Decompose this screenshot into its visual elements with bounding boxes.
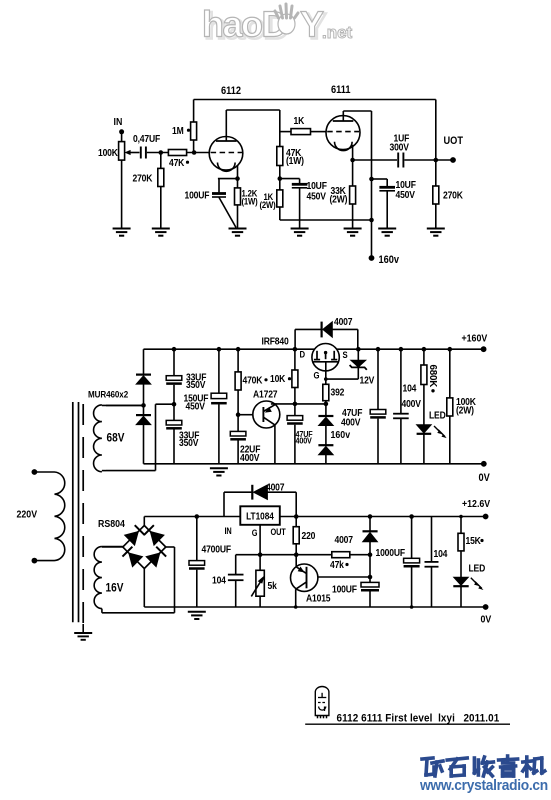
svg-text:16V: 16V <box>106 582 124 595</box>
svg-text:(1W): (1W) <box>286 154 304 166</box>
svg-text:4700UF: 4700UF <box>202 543 232 555</box>
svg-text:350V: 350V <box>186 378 206 390</box>
svg-text:www.crystalradio.cn: www.crystalradio.cn <box>419 777 548 793</box>
svg-text:220V: 220V <box>17 509 38 521</box>
svg-text:(2W): (2W) <box>260 199 276 210</box>
svg-text:100K: 100K <box>98 146 118 158</box>
svg-text:470K: 470K <box>243 374 263 386</box>
svg-text:400V: 400V <box>296 436 313 446</box>
svg-text:104: 104 <box>403 382 418 394</box>
svg-text:IN: IN <box>114 116 123 128</box>
svg-text:(2W): (2W) <box>456 404 474 416</box>
svg-text:160v: 160v <box>331 429 351 441</box>
svg-text:6112: 6112 <box>221 85 241 97</box>
svg-text:270K: 270K <box>443 189 463 201</box>
svg-text:(1W): (1W) <box>242 196 258 207</box>
svg-text:6112 6111 First level lxyi: 6112 6111 First level lxyi 2011.01 <box>337 713 500 725</box>
svg-text:450V: 450V <box>186 400 206 412</box>
svg-text:100UF: 100UF <box>185 189 210 201</box>
svg-text:450V: 450V <box>307 190 327 202</box>
svg-text:104: 104 <box>212 574 227 586</box>
svg-text:G: G <box>314 370 320 381</box>
svg-text:4007: 4007 <box>334 315 352 327</box>
svg-text:4007: 4007 <box>266 481 284 493</box>
svg-text:LED: LED <box>429 409 446 421</box>
svg-text:0,47UF: 0,47UF <box>133 132 160 144</box>
svg-text:220: 220 <box>302 529 316 541</box>
svg-text:1K: 1K <box>294 114 305 126</box>
svg-text:MUR460x2: MUR460x2 <box>88 389 128 400</box>
svg-text:Y: Y <box>300 4 324 45</box>
svg-text:100UF: 100UF <box>332 583 357 595</box>
svg-text:LED: LED <box>469 562 486 574</box>
svg-text:IRF840: IRF840 <box>262 335 289 347</box>
svg-text:47k: 47k <box>330 558 345 570</box>
svg-text:15K: 15K <box>466 534 482 546</box>
svg-text:A1727: A1727 <box>253 388 277 400</box>
svg-text:0V: 0V <box>481 614 492 626</box>
svg-text:+12.6V: +12.6V <box>462 498 491 510</box>
svg-text:4007: 4007 <box>335 533 353 545</box>
svg-text:104: 104 <box>434 547 449 559</box>
svg-text:D: D <box>300 349 305 360</box>
svg-text:400V: 400V <box>240 451 260 463</box>
svg-text:OUT: OUT <box>271 527 286 537</box>
svg-text:A1015: A1015 <box>306 592 330 604</box>
svg-text:1000UF: 1000UF <box>376 546 406 558</box>
svg-text:+160V: +160V <box>462 333 488 345</box>
svg-text:10K: 10K <box>270 372 286 384</box>
svg-text:.net: .net <box>322 23 353 42</box>
svg-text:270K: 270K <box>133 172 153 184</box>
svg-text:(2W): (2W) <box>330 193 348 205</box>
svg-text:392: 392 <box>331 386 345 398</box>
svg-text:LT1084: LT1084 <box>246 511 274 522</box>
svg-text:450V: 450V <box>396 188 416 200</box>
svg-text:1M: 1M <box>172 124 184 136</box>
svg-text:47K: 47K <box>169 156 185 168</box>
svg-text:0V: 0V <box>479 472 490 484</box>
svg-text:680K: 680K <box>427 365 438 388</box>
svg-text:5k: 5k <box>268 579 278 591</box>
svg-text:6111: 6111 <box>331 84 351 96</box>
svg-text:haoD: haoD <box>202 4 287 45</box>
svg-text:IN: IN <box>225 526 232 536</box>
svg-text:300V: 300V <box>390 141 410 153</box>
svg-text:G: G <box>252 528 258 538</box>
svg-text:S: S <box>343 350 348 361</box>
svg-text:400V: 400V <box>402 397 422 409</box>
svg-text:12V: 12V <box>360 374 376 386</box>
svg-text:160v: 160v <box>379 254 400 266</box>
svg-text:UOT: UOT <box>444 135 464 147</box>
svg-text:RS804: RS804 <box>98 518 126 530</box>
svg-text:350V: 350V <box>179 436 199 448</box>
svg-text:400V: 400V <box>341 416 361 428</box>
svg-text:68V: 68V <box>107 432 125 445</box>
